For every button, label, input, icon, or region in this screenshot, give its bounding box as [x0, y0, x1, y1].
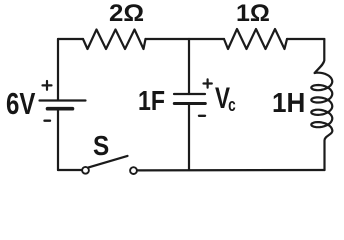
wire: bottom left segment — [58, 169, 82, 171]
capacitor C1 bottom plate — [174, 102, 205, 105]
label S switch name — [93, 130, 109, 162]
battery plus sign — [43, 81, 52, 90]
label 2 ohm resistor value — [109, 0, 144, 28]
resistor R1 (2 ohm) zigzag — [83, 30, 146, 50]
battery V1 short plate (-) — [48, 107, 73, 111]
wire: left vertical bottom (battery - to bottom-left corner) — [57, 109, 59, 170]
label 1F capacitor value — [138, 85, 165, 117]
inductor L1 coil 1H with leads — [311, 39, 332, 170]
switch S right terminal circle — [130, 167, 137, 174]
wire: top right segment — [287, 38, 324, 40]
battery V1 long plate (+) — [40, 99, 86, 101]
wire: middle vertical top (top node to capacitor) — [188, 39, 190, 94]
resistor R2 (1 ohm) zigzag — [224, 29, 287, 49]
wire: left vertical top (battery + to top-left corner) — [57, 39, 59, 100]
label Vc node voltage — [215, 82, 236, 116]
wire: bottom right segment (right corner to switch right terminal) — [137, 169, 324, 172]
switch S blade — [89, 156, 128, 168]
battery minus sign — [45, 119, 51, 121]
label 1 ohm resistor value — [236, 0, 270, 28]
switch S left terminal circle — [82, 167, 89, 174]
label 1H inductor value — [272, 87, 305, 119]
capacitor minus sign — [199, 115, 205, 117]
wire: top middle segment (R1 to R2 through node) — [146, 38, 225, 40]
label 6V source value — [6, 86, 35, 122]
wire: middle vertical bottom (capacitor to bottom wire) — [188, 104, 190, 170]
wire: top left segment — [58, 38, 83, 40]
capacitor C1 top plate — [174, 93, 205, 95]
capacitor plus sign — [204, 79, 212, 87]
